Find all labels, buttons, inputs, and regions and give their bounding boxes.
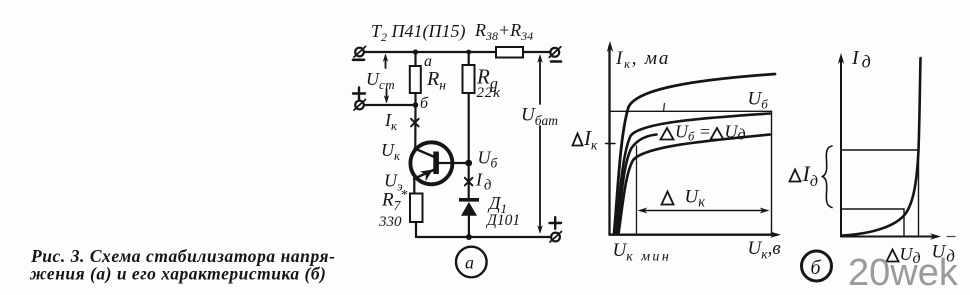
node Ub bbox=[465, 160, 472, 167]
scan tick above dUb text bbox=[664, 104, 665, 112]
curve 3 short bbox=[617, 135, 657, 235]
label R7* bbox=[381, 188, 407, 213]
svg-text:Iк: Iк bbox=[583, 126, 598, 153]
transistor base lead wire bbox=[439, 162, 469, 164]
svg-text:Uд: Uд bbox=[725, 122, 746, 144]
resistor Rn body bbox=[410, 66, 421, 93]
svg-text:20wek: 20wek bbox=[848, 252, 959, 294]
label Id bbox=[475, 170, 491, 194]
svg-text:Uб: Uб bbox=[478, 148, 499, 171]
label b (node b) bbox=[420, 95, 429, 112]
axis Y graph1 bbox=[607, 41, 613, 235]
wire diode to bottom rail bbox=[468, 215, 470, 237]
svg-text:Uб =: Uб = bbox=[675, 122, 711, 144]
resistor R38+R34 label bbox=[474, 20, 533, 43]
label Id axis graph2 bbox=[851, 47, 871, 72]
minus sign top-right bbox=[551, 60, 561, 63]
wire top rail left segment bbox=[364, 51, 496, 53]
wire second rail bbox=[364, 104, 416, 106]
transistor collector diagonal bbox=[415, 149, 435, 158]
svg-text:Uк мин: Uк мин bbox=[613, 240, 672, 265]
label a (node a) bbox=[424, 53, 432, 70]
wire top rail right segment bbox=[523, 51, 550, 53]
curve 2 bbox=[616, 114, 771, 235]
transistor base bar bbox=[433, 152, 439, 175]
label D101 bbox=[485, 212, 520, 229]
wire emitter down bbox=[413, 179, 415, 194]
svg-text:Iк, ма: Iк, ма bbox=[615, 48, 670, 71]
svg-text:Uк: Uк bbox=[685, 187, 706, 211]
current mark Id (x) bbox=[465, 178, 473, 186]
node junction diode bottom bbox=[466, 234, 472, 240]
terminal top-right bbox=[549, 47, 561, 58]
label Ub graph1 bbox=[748, 89, 769, 112]
axis X graph1 bbox=[610, 232, 782, 238]
curve diode graph2 bbox=[842, 58, 921, 236]
svg-text:Т2 П41(П15): Т2 П41(П15) bbox=[371, 21, 466, 44]
label Rg bbox=[476, 65, 498, 93]
label Ud axis graph2 bbox=[932, 242, 956, 266]
label 22k bbox=[477, 85, 502, 101]
caption figure text bbox=[29, 246, 335, 284]
arrow dUk double bbox=[638, 208, 770, 214]
minus sign top-left bbox=[353, 58, 364, 61]
svg-text:22к: 22к bbox=[477, 85, 502, 101]
label Uk min bbox=[613, 240, 672, 265]
wire Rg upper lead bbox=[468, 52, 470, 65]
resistor R38+R34 body bbox=[496, 47, 523, 58]
brace dId bbox=[823, 146, 833, 208]
wire Rn lower lead bbox=[414, 93, 416, 105]
wire Ub node down to diode bbox=[468, 163, 470, 199]
line lower horizontal graph2 bbox=[841, 208, 904, 210]
terminal top-left bbox=[354, 47, 366, 58]
terminal bottom-left bbox=[354, 100, 366, 111]
wire R7 to bottom rail bbox=[415, 222, 417, 237]
label Ust bbox=[366, 69, 395, 92]
label T2 P41(P15) bbox=[371, 21, 466, 44]
label Uk,v bbox=[748, 238, 781, 262]
svg-text:Uб: Uб bbox=[748, 89, 769, 112]
node junction Rg top bbox=[466, 50, 471, 55]
diode D1 cathode bar bbox=[459, 198, 479, 202]
label Ik,ma axis bbox=[615, 48, 670, 71]
svg-text:Uк,в: Uк,в bbox=[748, 238, 781, 262]
svg-text:Iд: Iд bbox=[851, 47, 871, 72]
arrow Ust up bbox=[383, 54, 389, 69]
circled label (a) bbox=[456, 247, 487, 278]
svg-text:330: 330 bbox=[378, 214, 402, 230]
wire Rg to Ub node bbox=[468, 93, 470, 163]
line box right graph1 bbox=[771, 111, 773, 234]
line upper vertical drop graph2 bbox=[918, 150, 920, 237]
label Ik bbox=[384, 110, 398, 133]
label Uk bbox=[381, 140, 401, 163]
label dUd graph2 bbox=[887, 244, 921, 267]
label Ue bbox=[384, 171, 403, 194]
label D1 bbox=[487, 193, 507, 216]
resistor Rg body bbox=[463, 65, 475, 93]
circled label (b) bbox=[802, 251, 832, 281]
measure arrow Ubat bbox=[537, 54, 543, 234]
wire Rn upper lead bbox=[414, 52, 416, 66]
label 330 bbox=[378, 214, 402, 230]
label dIk bbox=[573, 126, 599, 153]
line Uk min vertical bbox=[636, 146, 638, 235]
line upper horizontal graph2 bbox=[841, 149, 919, 151]
node junction b bbox=[413, 102, 419, 108]
plus sign bottom-right bbox=[550, 217, 562, 229]
line lower vertical drop graph2 bbox=[903, 209, 905, 237]
svg-text:Uк: Uк bbox=[381, 140, 401, 163]
svg-text:а: а bbox=[465, 253, 474, 273]
svg-text:Iд: Iд bbox=[802, 161, 818, 190]
terminal bottom-right bbox=[550, 232, 562, 243]
tick dIk lower bbox=[606, 143, 616, 145]
curve 4 bbox=[619, 135, 771, 235]
label dUb=dUd bbox=[661, 122, 746, 144]
arrow Ust down bbox=[384, 89, 390, 104]
svg-text:Iд: Iд bbox=[475, 170, 491, 194]
axis Y graph2 bbox=[838, 53, 844, 237]
current mark Ik (x) bbox=[411, 119, 419, 127]
svg-text:жения (а) и его характеристика: жения (а) и его характеристика (б) bbox=[29, 264, 326, 284]
axis X graph2 bbox=[841, 233, 955, 239]
line box top graph1 bbox=[610, 110, 772, 112]
node junction Rn top bbox=[413, 49, 418, 54]
curve Ub (top) bbox=[614, 74, 775, 234]
resistor R7 body bbox=[410, 194, 423, 223]
svg-text:Д101: Д101 bbox=[485, 212, 520, 229]
svg-text:Rн: Rн bbox=[426, 68, 446, 93]
plus sign bottom-left bbox=[353, 88, 365, 100]
transistor Q T2 circle bbox=[410, 142, 452, 184]
svg-text:R7*: R7* bbox=[381, 188, 407, 213]
diode D1 triangle bbox=[461, 202, 477, 216]
wire collector from node b bbox=[414, 105, 416, 147]
svg-text:б: б bbox=[420, 95, 429, 112]
svg-text:R38+R34: R38+R34 bbox=[474, 20, 533, 43]
wire bottom rail bbox=[416, 236, 551, 238]
label dId bbox=[790, 161, 818, 190]
label Ubat bbox=[521, 105, 558, 129]
svg-text:Uст: Uст bbox=[366, 69, 395, 92]
svg-text:Uбат: Uбат bbox=[521, 105, 558, 129]
svg-text:Iк: Iк bbox=[384, 110, 398, 133]
transistor emitter diagonal with arrow bbox=[414, 170, 435, 182]
label dUk bbox=[662, 187, 706, 211]
label Ub bbox=[478, 148, 499, 171]
label Rn bbox=[426, 68, 446, 93]
svg-text:б: б bbox=[811, 257, 822, 279]
